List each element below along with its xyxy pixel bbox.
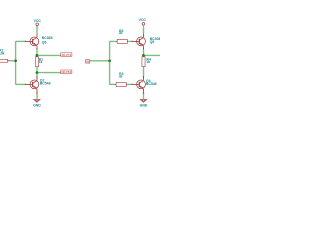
- svg-text:BC308: BC308: [42, 36, 53, 40]
- svg-text:Q6: Q6: [42, 41, 47, 45]
- svg-text:1k: 1k: [39, 60, 43, 64]
- svg-text:GND: GND: [140, 104, 148, 108]
- svg-text:OUT2: OUT2: [61, 70, 71, 74]
- svg-text:GND: GND: [33, 104, 41, 108]
- svg-text:VCC: VCC: [34, 19, 42, 23]
- svg-text:BC548: BC548: [40, 82, 51, 86]
- svg-text:1k: 1k: [146, 60, 150, 64]
- svg-text:OUT1: OUT1: [61, 53, 71, 57]
- svg-text:VCC: VCC: [139, 18, 147, 22]
- svg-text:BC548: BC548: [146, 82, 157, 86]
- svg-text:13k: 13k: [119, 75, 123, 79]
- svg-text:Q5: Q5: [150, 40, 155, 44]
- svg-text:13k: 13k: [119, 31, 123, 35]
- svg-text:10k: 10k: [0, 51, 5, 55]
